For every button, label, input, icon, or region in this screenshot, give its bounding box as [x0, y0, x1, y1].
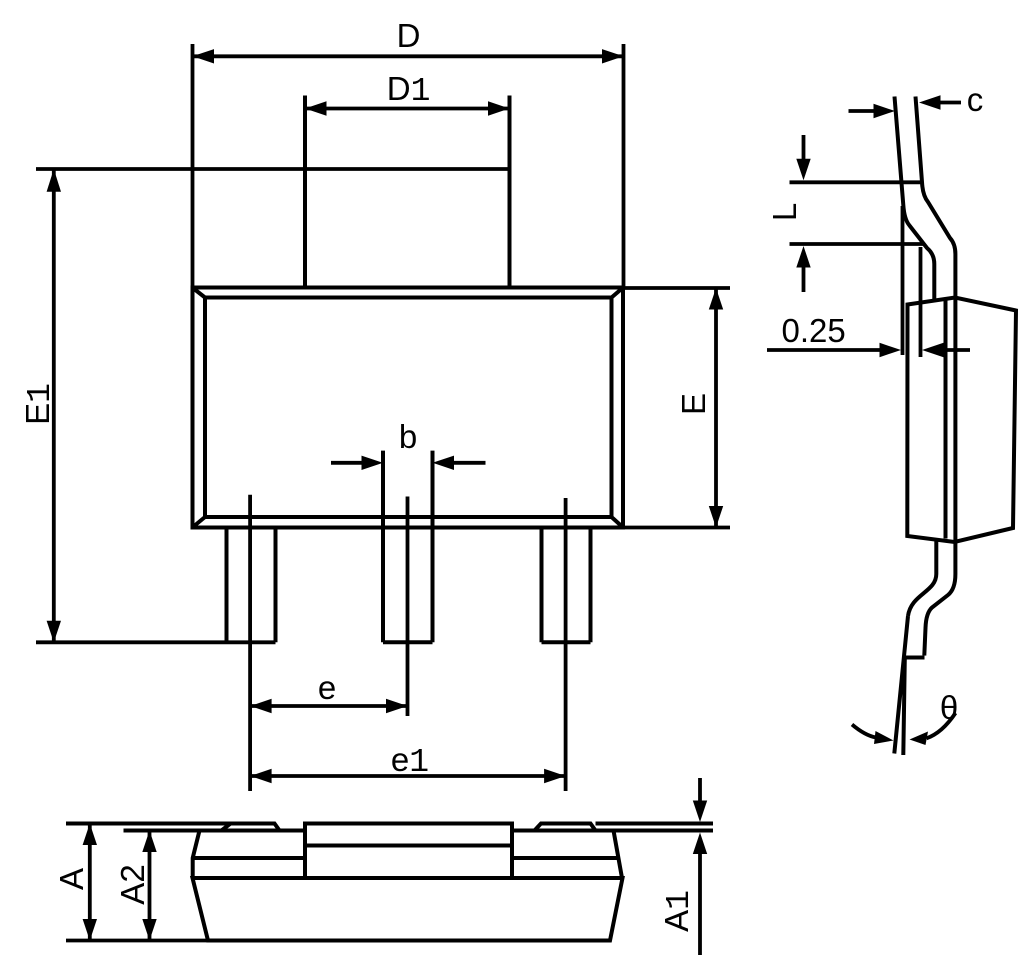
svg-text:b: b: [399, 418, 417, 455]
svg-text:0.25: 0.25: [781, 312, 845, 349]
svg-text:e1: e1: [391, 741, 429, 781]
svg-text:e: e: [318, 669, 336, 706]
svg-text:E: E: [675, 393, 712, 415]
svg-text:A1: A1: [658, 890, 698, 932]
svg-text:D1: D1: [387, 70, 431, 110]
svg-text:θ: θ: [940, 689, 958, 726]
svg-text:D: D: [397, 17, 421, 54]
svg-text:A: A: [53, 868, 90, 890]
svg-text:E1: E1: [19, 383, 59, 425]
svg-text:L: L: [766, 203, 803, 221]
svg-text:c: c: [967, 81, 984, 118]
svg-text:A2: A2: [114, 864, 151, 904]
